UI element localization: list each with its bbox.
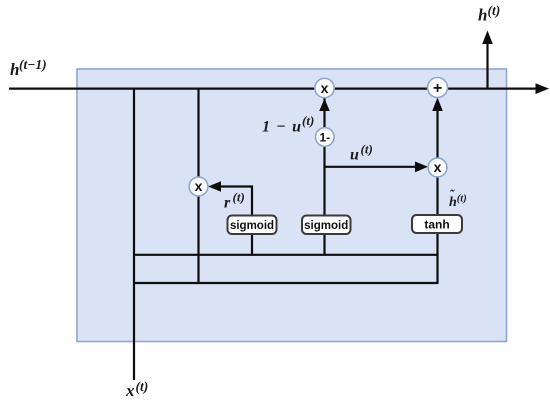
- gate sigmoid box right (update gate): [302, 216, 351, 235]
- op 1-minus circle: [316, 128, 335, 147]
- svg-text:x: x: [321, 80, 329, 96]
- node r(t) label: [224, 190, 245, 212]
- svg-text:(t−1): (t−1): [19, 57, 47, 72]
- svg-text:r: r: [224, 195, 231, 212]
- wire from left sigmoid bottom to bus line 1: [251, 234, 253, 255]
- node h(t) label: [478, 3, 500, 25]
- node h-tilde label: [449, 187, 467, 211]
- svg-text:(t): (t): [488, 3, 501, 18]
- wire lower bus line 1: [134, 254, 439, 256]
- wire vertical line B from h line down to lower bus: [197, 89, 199, 284]
- wire x(t) input vertical (line A): [133, 89, 135, 380]
- wire from tanh up to right x multiply: [436, 177, 438, 215]
- svg-text:1 − u: 1 − u: [262, 119, 301, 136]
- wire h(t-1) main horizontal line with arrowhead: [9, 83, 549, 94]
- wire h(t) output vertical arrow: [482, 31, 493, 89]
- wire u(t) branch to right x multiply: [325, 162, 429, 173]
- svg-text:x: x: [195, 178, 203, 194]
- node x(t) label: [125, 379, 148, 400]
- svg-text:sigmoid: sigmoid: [304, 220, 348, 232]
- svg-text:x: x: [125, 381, 135, 400]
- svg-text:sigmoid: sigmoid: [230, 220, 274, 232]
- svg-text:(t): (t): [233, 190, 245, 205]
- wire lower bus line 2: [134, 282, 439, 284]
- svg-text:1-: 1-: [319, 131, 330, 145]
- gate sigmoid box left (reset gate): [228, 216, 277, 235]
- wire reset-gate: from sigmoid top up then left into x circle with arrow: [208, 181, 252, 215]
- node 1-u(t) label: [262, 113, 314, 136]
- node u(t) label: [350, 142, 373, 164]
- svg-text:tanh: tanh: [424, 218, 449, 232]
- op multiply circle on h line: [315, 78, 334, 97]
- svg-text:+: +: [433, 80, 442, 97]
- GRU cell body rectangle: [77, 69, 507, 342]
- op left multiply circle (reset): [189, 177, 208, 196]
- wire arrow from 1- into x multiply on h line: [319, 99, 330, 112]
- svg-text:(t): (t): [361, 142, 373, 157]
- wire from tanh bottom to bus line 2: [436, 232, 438, 283]
- svg-text:(t): (t): [136, 379, 149, 394]
- op right multiply circle: [428, 158, 447, 177]
- wire from right x multiply up to plus with arrowhead: [432, 98, 443, 159]
- wire update-gate vertical from x circle down to sigmoid: [323, 98, 325, 215]
- svg-text:(t): (t): [302, 113, 314, 128]
- gate tanh box (candidate state): [412, 215, 462, 233]
- svg-text:x: x: [434, 159, 442, 175]
- wire from right sigmoid bottom to bus line 1: [323, 234, 325, 255]
- op plus circle on h line: [428, 78, 448, 98]
- svg-text:h: h: [478, 6, 487, 25]
- node h(t-1) label: [10, 57, 47, 79]
- svg-text:u: u: [350, 147, 359, 164]
